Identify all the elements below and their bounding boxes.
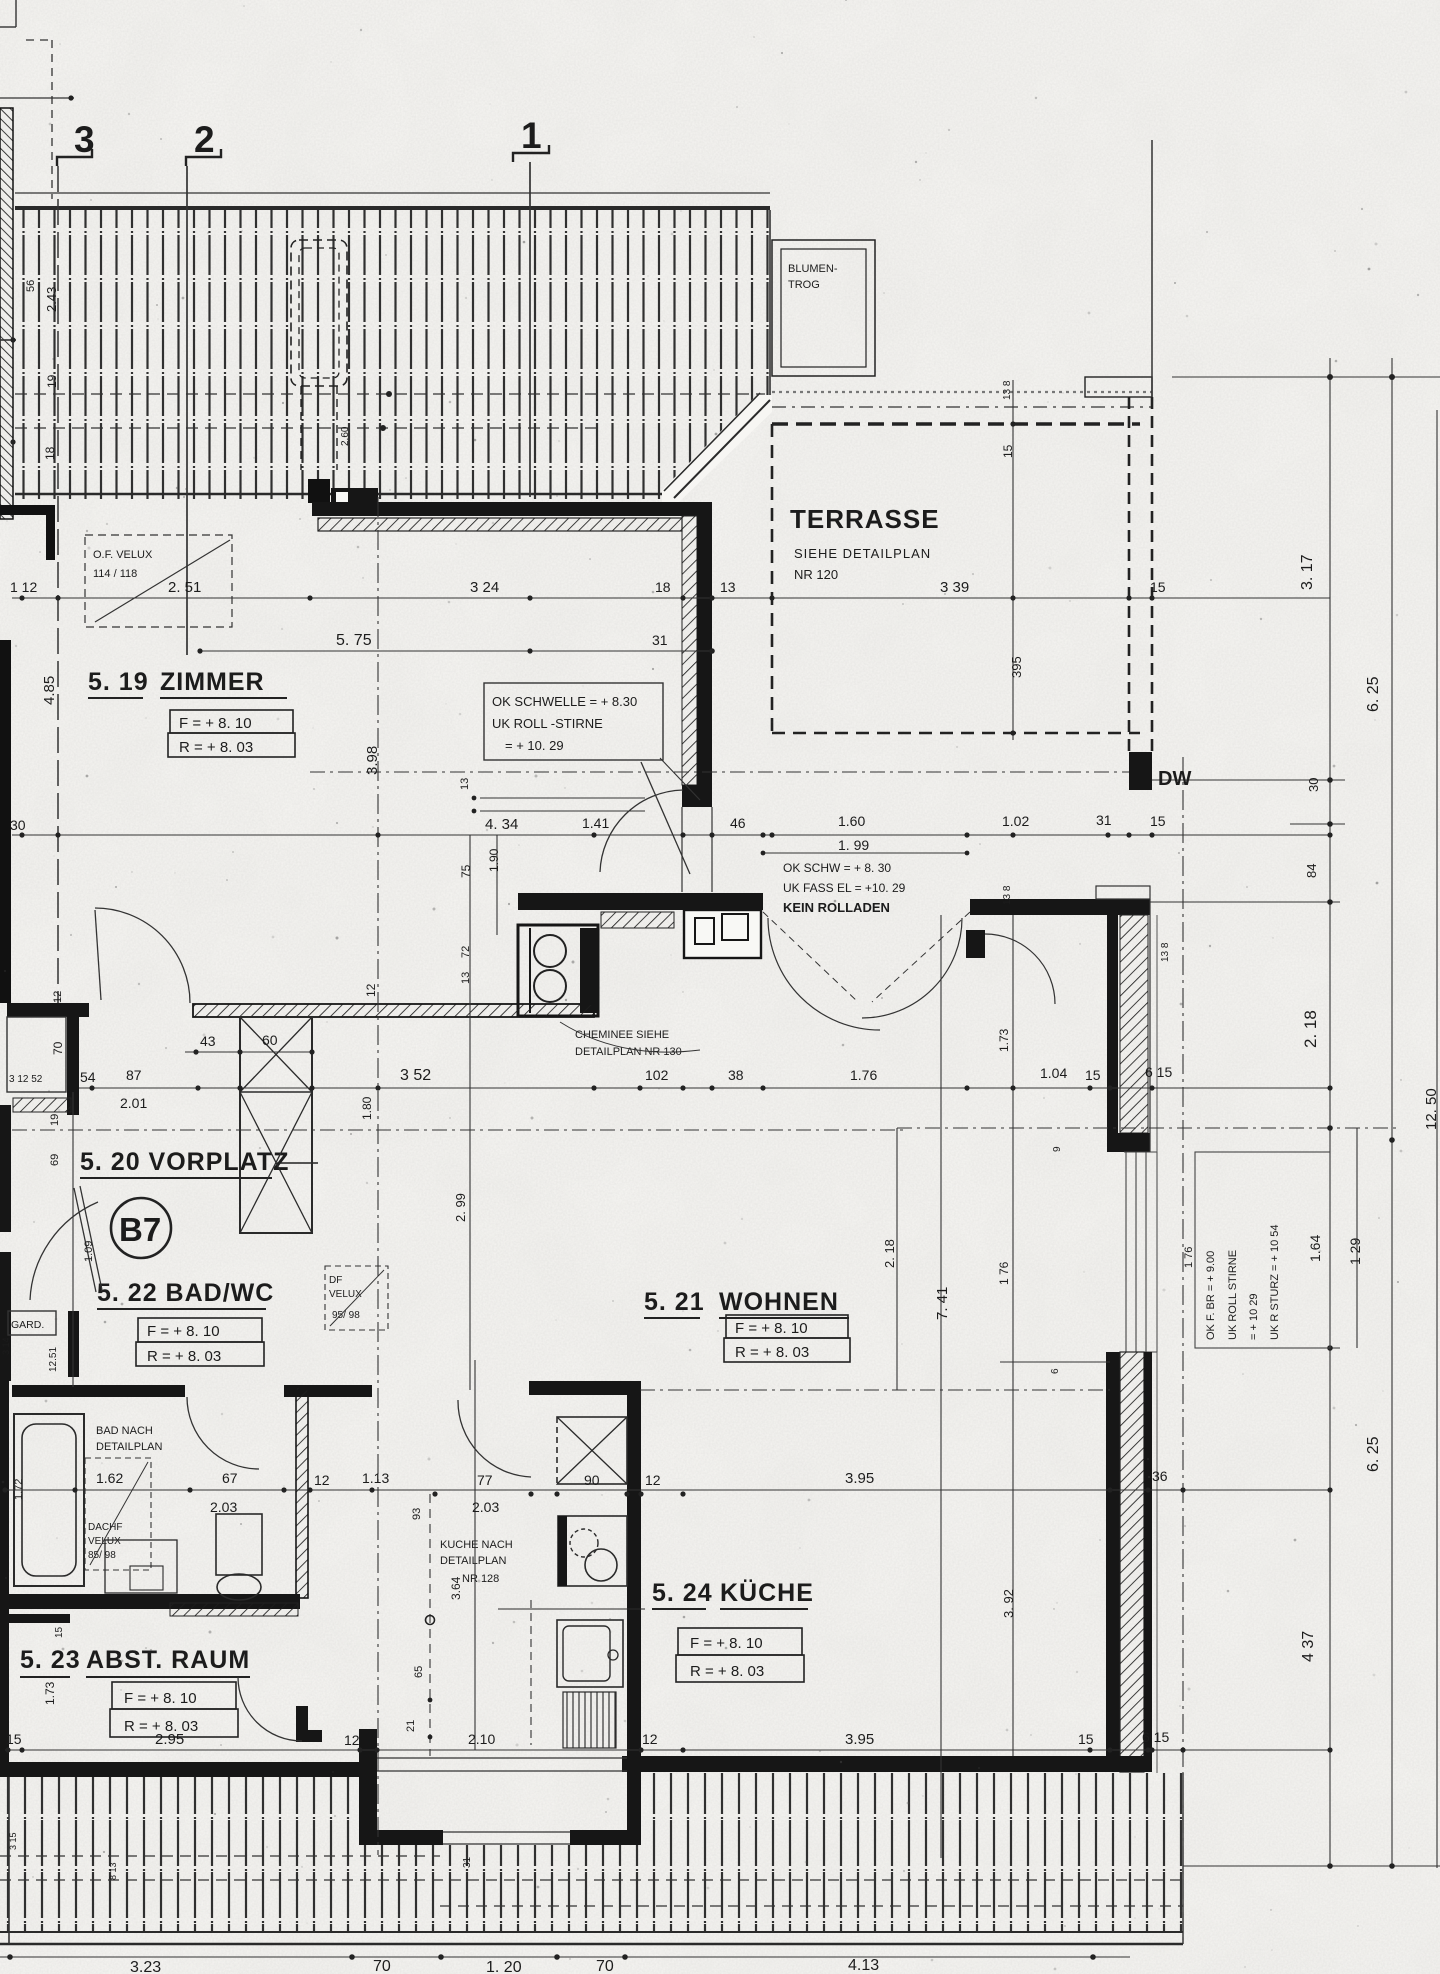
svg-text:2. 18: 2. 18 — [1301, 1010, 1320, 1048]
svg-text:DETAILPLAN: DETAILPLAN — [96, 1441, 162, 1453]
svg-text:19: 19 — [45, 374, 59, 388]
svg-text:15: 15 — [1078, 1731, 1094, 1747]
svg-text:OK SCHW = + 8. 30: OK SCHW = + 8. 30 — [783, 861, 891, 875]
svg-text:F = + 8. 10: F = + 8. 10 — [735, 1320, 808, 1337]
svg-text:SIEHE DETAILPLAN: SIEHE DETAILPLAN — [794, 546, 931, 561]
svg-text:13: 13 — [720, 579, 736, 595]
svg-text:18: 18 — [43, 446, 57, 460]
svg-text:70: 70 — [51, 1041, 65, 1055]
svg-text:70: 70 — [596, 1958, 614, 1974]
svg-text:69: 69 — [49, 1154, 61, 1166]
svg-text:4 37: 4 37 — [1300, 1631, 1317, 1662]
svg-text:5. 20 VORPLATZ: 5. 20 VORPLATZ — [80, 1148, 289, 1176]
svg-text:43: 43 — [200, 1033, 216, 1049]
svg-text:15: 15 — [6, 1731, 22, 1747]
svg-text:15: 15 — [54, 1626, 65, 1638]
svg-text:6. 25: 6. 25 — [1365, 676, 1382, 712]
svg-text:1.90: 1.90 — [487, 848, 501, 872]
svg-text:1.13: 1.13 — [362, 1470, 389, 1486]
svg-text:3 52: 3 52 — [400, 1067, 431, 1084]
svg-text:ABST. RAUM: ABST. RAUM — [86, 1646, 250, 1674]
svg-text:2.10: 2.10 — [468, 1731, 495, 1747]
svg-text:18: 18 — [655, 579, 671, 595]
svg-text:12: 12 — [314, 1472, 330, 1488]
svg-text:3.95: 3.95 — [845, 1731, 874, 1748]
svg-text:8 13: 8 13 — [108, 1862, 118, 1880]
svg-text:= + 10 29: = + 10 29 — [1248, 1294, 1260, 1341]
svg-text:1 29: 1 29 — [1347, 1238, 1363, 1265]
svg-text:395: 395 — [1009, 656, 1024, 678]
svg-text:B7: B7 — [119, 1211, 161, 1248]
svg-text:NR 128: NR 128 — [462, 1573, 499, 1585]
svg-text:KÜCHE: KÜCHE — [720, 1578, 814, 1607]
svg-text:BAD NACH: BAD NACH — [96, 1425, 153, 1437]
svg-text:CHEMINEE SIEHE: CHEMINEE SIEHE — [575, 1029, 669, 1041]
svg-text:4.13: 4.13 — [848, 1957, 879, 1974]
svg-text:13 8: 13 8 — [1160, 942, 1171, 962]
svg-text:DW: DW — [1158, 768, 1191, 790]
svg-text:ZIMMER: ZIMMER — [160, 668, 265, 696]
svg-text:3. 92: 3. 92 — [1001, 1589, 1016, 1618]
svg-text:77: 77 — [477, 1472, 493, 1488]
svg-text:BLUMEN-: BLUMEN- — [788, 263, 838, 275]
svg-text:19: 19 — [49, 1114, 61, 1126]
svg-text:DETAILPLAN: DETAILPLAN — [440, 1555, 506, 1567]
svg-text:= + 10. 29: = + 10. 29 — [505, 738, 564, 753]
svg-text:114 / 118: 114 / 118 — [93, 568, 137, 580]
svg-text:2.95: 2.95 — [155, 1731, 184, 1748]
svg-text:67: 67 — [222, 1470, 238, 1486]
svg-text:85/ 98: 85/ 98 — [88, 1550, 116, 1561]
svg-text:13: 13 — [459, 778, 471, 790]
svg-text:5. 24: 5. 24 — [652, 1579, 713, 1607]
svg-text:65: 65 — [413, 1666, 425, 1678]
svg-text:30: 30 — [1306, 778, 1321, 792]
svg-text:15: 15 — [1001, 444, 1015, 458]
svg-text:60: 60 — [262, 1032, 278, 1048]
svg-text:13 8: 13 8 — [1002, 885, 1013, 905]
svg-text:12: 12 — [344, 1732, 360, 1748]
svg-text:15: 15 — [1085, 1067, 1101, 1083]
svg-text:3.64: 3.64 — [449, 1576, 463, 1600]
svg-text:93: 93 — [411, 1508, 423, 1520]
svg-text:3 24: 3 24 — [470, 579, 499, 596]
svg-text:UK ROLL STIRNE: UK ROLL STIRNE — [1227, 1250, 1239, 1340]
svg-text:R = + 8. 03: R = + 8. 03 — [179, 739, 253, 756]
svg-text:21: 21 — [405, 1720, 417, 1732]
svg-text:12. 50: 12. 50 — [1423, 1088, 1440, 1130]
svg-text:1.76: 1.76 — [850, 1067, 877, 1083]
svg-text:12: 12 — [645, 1472, 661, 1488]
svg-text:2.03: 2.03 — [210, 1499, 237, 1515]
svg-text:KUCHE NACH: KUCHE NACH — [440, 1539, 513, 1551]
svg-text:1.02: 1.02 — [1002, 813, 1029, 829]
svg-text:12.51: 12.51 — [48, 1347, 59, 1372]
svg-text:1.04: 1.04 — [1040, 1065, 1067, 1081]
svg-text:5. 21: 5. 21 — [644, 1288, 705, 1316]
svg-text:6: 6 — [1050, 1368, 1061, 1374]
svg-text:46: 46 — [730, 815, 746, 831]
svg-text:31: 31 — [462, 1856, 473, 1868]
svg-text:5. 23: 5. 23 — [20, 1646, 81, 1674]
svg-text:TERRASSE: TERRASSE — [790, 504, 940, 534]
svg-text:F = + 8. 10: F = + 8. 10 — [147, 1323, 220, 1340]
svg-text:TROG: TROG — [788, 279, 820, 291]
svg-text:4.85: 4.85 — [41, 676, 58, 705]
svg-text:6 15: 6 15 — [1145, 1064, 1172, 1080]
svg-text:4. 34: 4. 34 — [485, 816, 518, 833]
svg-text:31: 31 — [1096, 812, 1112, 828]
svg-text:F = + 8. 10: F = + 8. 10 — [690, 1635, 763, 1652]
svg-text:5. 19: 5. 19 — [88, 668, 149, 696]
svg-text:R = + 8. 03: R = + 8. 03 — [147, 1348, 221, 1365]
svg-text:72: 72 — [460, 946, 472, 958]
svg-text:UK R STURZ = + 10 54: UK R STURZ = + 10 54 — [1269, 1224, 1281, 1340]
svg-text:1.41: 1.41 — [582, 815, 609, 831]
svg-text:7. 41: 7. 41 — [934, 1287, 951, 1320]
svg-text:5. 75: 5. 75 — [336, 632, 372, 649]
svg-text:15: 15 — [1150, 579, 1166, 595]
svg-text:2.03: 2.03 — [472, 1499, 499, 1515]
svg-text:F = + 8. 10: F = + 8. 10 — [179, 715, 252, 732]
svg-text:OK SCHWELLE = + 8.30: OK SCHWELLE = + 8.30 — [492, 694, 637, 709]
svg-text:GARD.: GARD. — [11, 1319, 44, 1331]
svg-text:87: 87 — [126, 1067, 142, 1083]
svg-text:OK F. BR = + 9.00: OK F. BR = + 9.00 — [1205, 1251, 1217, 1340]
svg-text:DF: DF — [329, 1275, 342, 1286]
svg-text:O.F. VELUX: O.F. VELUX — [93, 549, 153, 561]
svg-text:2. 51: 2. 51 — [168, 579, 201, 596]
svg-text:13 8: 13 8 — [1002, 380, 1013, 400]
svg-text:R = + 8. 03: R = + 8. 03 — [690, 1663, 764, 1680]
svg-text:NR 120: NR 120 — [794, 567, 838, 582]
svg-text:36: 36 — [1152, 1468, 1168, 1484]
svg-text:2: 2 — [194, 119, 215, 160]
svg-text:9: 9 — [1052, 1146, 1063, 1152]
svg-text:1.64: 1.64 — [1307, 1235, 1323, 1262]
svg-text:3 14: 3 14 — [1, 1337, 11, 1355]
svg-text:UK FASS EL = +10. 29: UK FASS EL = +10. 29 — [783, 881, 906, 895]
svg-text:WOHNEN: WOHNEN — [719, 1288, 839, 1316]
svg-text:5. 22 BAD/WC: 5. 22 BAD/WC — [97, 1279, 274, 1307]
svg-text:KEIN ROLLADEN: KEIN ROLLADEN — [783, 900, 890, 915]
svg-text:3. 17: 3. 17 — [1299, 554, 1316, 590]
svg-text:1 76: 1 76 — [997, 1261, 1011, 1285]
svg-text:2.01: 2.01 — [120, 1095, 147, 1111]
svg-text:38: 38 — [728, 1067, 744, 1083]
svg-text:90: 90 — [584, 1472, 600, 1488]
svg-text:F = + 8. 10: F = + 8. 10 — [124, 1690, 197, 1707]
svg-text:1: 1 — [521, 115, 542, 156]
svg-text:2. 99: 2. 99 — [453, 1193, 468, 1222]
svg-text:56: 56 — [25, 280, 37, 292]
svg-text:2. 18: 2. 18 — [882, 1239, 897, 1268]
svg-text:3.98: 3.98 — [364, 746, 381, 775]
svg-text:6 15: 6 15 — [1142, 1729, 1169, 1745]
svg-text:1.73: 1.73 — [997, 1028, 1011, 1052]
svg-text:1. 20: 1. 20 — [486, 1959, 522, 1974]
svg-text:12: 12 — [52, 991, 64, 1003]
svg-text:UK ROLL -STIRNE: UK ROLL -STIRNE — [492, 716, 603, 731]
svg-text:75: 75 — [459, 864, 473, 878]
svg-text:1.62: 1.62 — [96, 1470, 123, 1486]
svg-text:1. 99: 1. 99 — [838, 837, 869, 853]
svg-text:2.43: 2.43 — [44, 287, 59, 312]
svg-text:70: 70 — [373, 1958, 391, 1974]
svg-text:3 15: 3 15 — [8, 1832, 18, 1850]
svg-text:1 76: 1 76 — [1183, 1247, 1195, 1268]
svg-text:3.95: 3.95 — [845, 1470, 874, 1487]
svg-text:6. 25: 6. 25 — [1365, 1436, 1382, 1472]
svg-text:31: 31 — [652, 632, 668, 648]
svg-text:54: 54 — [80, 1069, 96, 1085]
svg-text:1.09: 1.09 — [83, 1241, 95, 1262]
svg-text:1.60: 1.60 — [838, 813, 865, 829]
svg-text:15: 15 — [1150, 813, 1166, 829]
svg-text:DACHF: DACHF — [88, 1522, 122, 1533]
svg-text:12: 12 — [642, 1731, 658, 1747]
svg-text:1.80: 1.80 — [360, 1096, 374, 1120]
svg-text:1 12: 1 12 — [10, 579, 37, 595]
svg-text:30: 30 — [10, 817, 26, 833]
svg-text:102: 102 — [645, 1067, 669, 1083]
svg-text:3.23: 3.23 — [130, 1959, 161, 1974]
svg-text:R = + 8. 03: R = + 8. 03 — [735, 1344, 809, 1361]
svg-text:12: 12 — [364, 983, 378, 997]
svg-text:1.72: 1.72 — [13, 1479, 25, 1500]
svg-text:13: 13 — [460, 972, 472, 984]
svg-text:84: 84 — [1304, 864, 1319, 878]
svg-text:1.73: 1.73 — [43, 1681, 57, 1705]
svg-text:3 12 52: 3 12 52 — [9, 1074, 43, 1085]
svg-text:2.60: 2.60 — [340, 426, 351, 446]
